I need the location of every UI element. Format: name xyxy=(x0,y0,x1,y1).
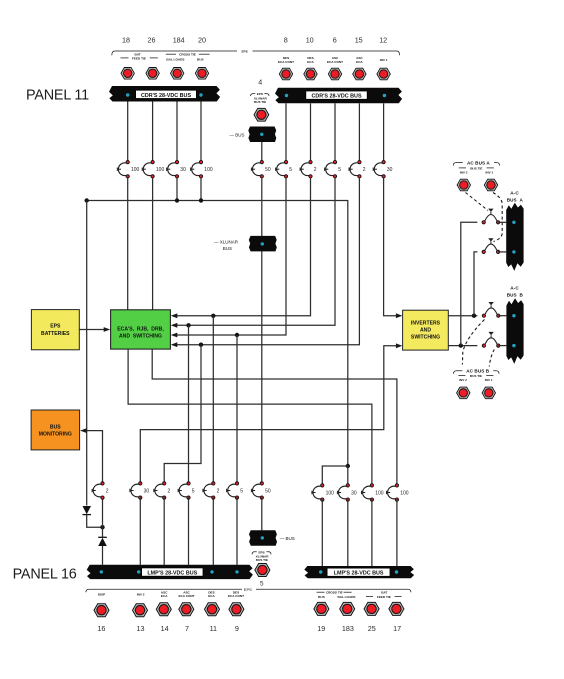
wire AC bus A switch2 feed xyxy=(474,252,477,316)
EPS BATTERIES box xyxy=(31,310,79,350)
breaker hex 20 xyxy=(195,68,208,80)
wire col 383.6 to inverter input 1 xyxy=(384,178,397,316)
breaker hex 13 INV 2 xyxy=(132,604,147,617)
arrowhead into ECA box from batteries xyxy=(104,327,111,332)
wire ECA line2 drop to lower CB 5 xyxy=(188,325,190,483)
svg-text:100: 100 xyxy=(326,490,335,496)
wire ECA line3 drop to lower CB 5 xyxy=(236,335,238,484)
wire batteries to ECA box xyxy=(79,329,104,331)
breaker hex 8 DES ECA CONT xyxy=(279,68,292,80)
svg-text:BAL LOADS: BAL LOADS xyxy=(166,57,184,61)
breaker hex 18 BAT FEED TIE xyxy=(121,68,134,80)
CDR 28-VDC bus (left segment) xyxy=(109,86,220,102)
svg-text:16: 16 xyxy=(97,624,105,633)
junction dot line2 xyxy=(186,323,190,327)
breaker hex AC bus B INV 1 xyxy=(482,387,495,399)
svg-text:2: 2 xyxy=(217,488,220,494)
junction dot output1 xyxy=(472,314,476,318)
diode CR1 (left trunk) xyxy=(83,506,103,527)
svg-text:50: 50 xyxy=(265,167,271,173)
wire to bus monitoring xyxy=(86,431,103,484)
ECA'S RJB DRB AND SWITCHING box xyxy=(111,310,171,349)
BUS MONITORING box xyxy=(31,410,80,450)
svg-text:ECA CONT: ECA CONT xyxy=(228,594,244,598)
CB 30 (col 383.6) xyxy=(373,160,385,178)
svg-text:2: 2 xyxy=(106,488,109,494)
lower CB 100 (col 322.3) xyxy=(312,484,324,502)
wire xlunar col down through xlunar bus xyxy=(261,178,263,484)
breaker hex AC bus A INV 2 xyxy=(457,179,470,191)
svg-text:50: 50 xyxy=(265,488,271,494)
CB 5 (col 335) xyxy=(325,160,337,178)
junction dot output2 xyxy=(459,343,463,347)
junction dot diode node xyxy=(100,525,104,529)
svg-text:4: 4 xyxy=(258,77,262,86)
wire ECA bottom output 1 to lower right CB 100 xyxy=(128,349,372,485)
lower CB 100 (col 371.9) xyxy=(362,484,374,502)
breaker hex 7 ASC ECA CONT xyxy=(179,603,194,616)
svg-text:BATTERIES: BATTERIES xyxy=(41,331,70,337)
svg-text:15: 15 xyxy=(355,36,363,45)
lower CB 100 (col 396.9) xyxy=(387,484,399,502)
svg-text:BAT: BAT xyxy=(381,591,387,595)
breaker hex 11 DES ECA xyxy=(204,603,219,616)
dashed link switch3 to INV2 hex (bus B) xyxy=(462,320,484,365)
panel 11 EPS bracket line xyxy=(112,50,400,56)
breaker hex 16 DISP xyxy=(94,604,109,617)
svg-text:BUS A: BUS A xyxy=(507,198,524,203)
svg-text:— BUS: — BUS xyxy=(280,536,295,541)
dashed link INV1 hex to switch2 xyxy=(493,193,502,242)
breaker hex AC bus B INV 2 xyxy=(457,387,470,399)
svg-text:— BUS: — BUS xyxy=(230,132,245,137)
breaker hex 15 ASC ECA xyxy=(353,68,366,80)
wire inverter input 2 from LMP bus CB 30 xyxy=(140,346,396,484)
wire switch2 to AC bus A bar xyxy=(498,251,506,253)
arrowhead into ECA box line1 xyxy=(171,313,178,318)
svg-text:BUS: BUS xyxy=(223,246,232,251)
CB 2 (col 359.4) xyxy=(349,160,361,178)
lower CB 2 (col 213.3) xyxy=(203,482,215,500)
svg-text:26: 26 xyxy=(148,36,156,45)
svg-text:INV 1: INV 1 xyxy=(486,171,494,175)
svg-text:5: 5 xyxy=(240,488,243,494)
svg-text:CDR'S 28-VDC BUS: CDR'S 28-VDC BUS xyxy=(311,94,362,100)
wire ECA bottom output 2 to lower right CB 100 xyxy=(152,349,397,485)
wire trunk drop junction to lower CB 30 xyxy=(346,464,350,468)
wire inverter output 1 to AC bus B switch xyxy=(448,315,477,317)
label CROSS TIE / BAL LOADS / BUS (panel 11) xyxy=(166,53,210,62)
svg-text:11: 11 xyxy=(210,624,217,633)
lower CB 5 (col 237) xyxy=(227,482,239,500)
breaker hex 10 DES ECA xyxy=(304,68,317,80)
lower CB 50 (col 261.8) xyxy=(251,482,263,500)
arrowhead into ECA box line4 xyxy=(171,342,178,347)
wire switch4 to AC bus B bar xyxy=(498,345,506,347)
svg-text:184: 184 xyxy=(173,36,185,45)
svg-text:5: 5 xyxy=(338,167,341,173)
arrowhead into ECA box line2 xyxy=(171,323,178,328)
svg-text:— XLUNAR: — XLUNAR xyxy=(214,240,239,245)
A-C BUS A bar xyxy=(506,203,523,271)
label EPS XLUNAR BUS TIE (bottom) xyxy=(252,550,271,562)
svg-text:ECA'S, RJB, DRB,: ECA'S, RJB, DRB, xyxy=(117,327,164,333)
breaker hex 4 EPS XLUNAR BUS TIE xyxy=(254,108,269,121)
svg-text:CROSS TIE: CROSS TIE xyxy=(326,591,343,595)
breaker hex 6 ASC ECA CONT xyxy=(328,68,341,80)
lower CB 2 (col 102.5) xyxy=(92,482,104,500)
svg-text:6: 6 xyxy=(333,36,337,45)
breaker hex 5 EPS XLUNAR BUS TIE (bottom) xyxy=(255,564,270,577)
CB 100 (col 201) xyxy=(191,160,203,178)
wire AC bus A switch1 feed xyxy=(461,222,478,345)
wire col 152.6 CB to ECA box top xyxy=(152,178,154,310)
svg-text:ECA CONT: ECA CONT xyxy=(327,60,343,64)
label BAT FEED TIE (panel 11) xyxy=(121,53,158,61)
svg-text:FEED TIE: FEED TIE xyxy=(377,595,391,599)
labels under LMP right bus xyxy=(317,591,402,599)
wire col 201 CB to trunk xyxy=(200,178,202,201)
svg-text:BUS TIE: BUS TIE xyxy=(470,374,482,378)
svg-text:30: 30 xyxy=(144,488,150,494)
wire col 177 CB to trunk xyxy=(176,178,178,201)
svg-text:BUS B: BUS B xyxy=(507,293,524,298)
INVERTERS AND SWITCHING box xyxy=(403,310,449,350)
svg-text:BUS TIE: BUS TIE xyxy=(254,100,266,104)
svg-text:AND: AND xyxy=(420,327,431,333)
svg-text:A-C: A-C xyxy=(510,286,519,291)
svg-text:SWITCHING: SWITCHING xyxy=(411,334,440,340)
CB 30 (col 177) xyxy=(167,160,179,178)
A-C BUS B bar xyxy=(506,298,523,364)
svg-text:ECA: ECA xyxy=(356,60,363,64)
dashed link switch4 to INV1 hex (bus B) xyxy=(489,350,494,367)
breaker hex 9 DES ECA CONT xyxy=(229,603,244,616)
svg-text:EPS: EPS xyxy=(241,50,247,54)
svg-text:13: 13 xyxy=(137,624,145,633)
svg-text:30: 30 xyxy=(387,167,393,173)
svg-text:EPS: EPS xyxy=(244,587,252,592)
svg-text:BUS: BUS xyxy=(197,57,204,61)
svg-text:2: 2 xyxy=(363,167,366,173)
svg-text:18: 18 xyxy=(122,36,130,45)
wire col 359.4 to ECA arrow 4 xyxy=(177,178,360,345)
CB 5 (col 286) xyxy=(276,160,288,178)
svg-text:17: 17 xyxy=(393,624,401,633)
svg-text:PANEL 11: PANEL 11 xyxy=(26,88,89,104)
XLUNAR bus (middle) xyxy=(214,236,277,252)
wire col 286 to ECA arrow 3 xyxy=(177,178,287,335)
arrowhead into bus monitoring xyxy=(80,428,87,433)
svg-text:BUS: BUS xyxy=(50,424,61,430)
junction dot line3 xyxy=(235,333,239,337)
svg-text:19: 19 xyxy=(317,624,325,633)
svg-text:183: 183 xyxy=(342,624,354,633)
wire branch to lower CB 100 (322) xyxy=(322,466,348,485)
label EPS XLUNAR BUS TIE (top) xyxy=(251,92,269,104)
svg-text:30: 30 xyxy=(351,490,357,496)
svg-text:ECA CONT: ECA CONT xyxy=(278,60,294,64)
switch3 AC bus B xyxy=(482,302,500,317)
svg-text:A-C: A-C xyxy=(510,191,519,196)
svg-text:CDR'S 28-VDC BUS: CDR'S 28-VDC BUS xyxy=(141,93,192,99)
wire col 335 to ECA arrow 2 xyxy=(177,178,336,326)
junction dot line1 xyxy=(211,314,215,318)
svg-text:25: 25 xyxy=(368,624,376,633)
svg-text:100: 100 xyxy=(131,167,140,173)
labels above right CDR bus xyxy=(278,56,388,64)
svg-text:100: 100 xyxy=(400,490,409,496)
wire col 127.7 CB to ECA box top xyxy=(127,178,129,310)
lower CB 30 (col 347.8) xyxy=(337,484,349,502)
breaker hex 17 BAT FEED TIE xyxy=(389,602,404,615)
wire CB 50 to xlunar mini bus (bottom) xyxy=(261,497,263,530)
switch1 AC bus A xyxy=(482,209,500,224)
breaker hex 26 xyxy=(146,68,159,80)
svg-text:20: 20 xyxy=(198,36,206,45)
svg-text:BUS TIE: BUS TIE xyxy=(256,558,268,562)
lower CB 30 (col 140.3) xyxy=(130,482,142,500)
LMP 28-VDC bus (left segment) xyxy=(87,565,253,579)
svg-text:7: 7 xyxy=(185,624,189,633)
svg-text:BAL LOADS: BAL LOADS xyxy=(338,595,356,599)
svg-text:100: 100 xyxy=(156,167,165,173)
CB 50 (col 261.8) xyxy=(251,160,263,178)
svg-text:100: 100 xyxy=(204,167,213,173)
wire xlunar mini bus to CB 50 xyxy=(261,142,263,161)
svg-text:AC BUS A: AC BUS A xyxy=(467,161,490,166)
svg-text:10: 10 xyxy=(306,36,314,45)
svg-text:INVERTERS: INVERTERS xyxy=(411,320,441,326)
XLUNAR mini bus (bottom) xyxy=(249,530,295,546)
svg-text:EPS: EPS xyxy=(50,324,61,330)
junction dot line4 xyxy=(199,343,203,347)
CDR 28-VDC bus (right segment) xyxy=(275,88,402,104)
CB 2 (col 310.5) xyxy=(300,160,312,178)
breaker hex 14 ASC ECA xyxy=(156,603,171,616)
svg-text:AND SWITCHING: AND SWITCHING xyxy=(119,333,162,339)
breaker hex AC bus A INV 1 xyxy=(484,179,497,191)
arrowhead inverter input 1 xyxy=(396,313,403,318)
svg-text:100: 100 xyxy=(375,490,384,496)
lower CB 2 (col 164.2) xyxy=(154,482,166,500)
svg-text:LMP'S 28-VDC BUS: LMP'S 28-VDC BUS xyxy=(334,571,384,577)
label AC BUS A bracket xyxy=(453,161,499,175)
svg-text:12: 12 xyxy=(379,36,387,45)
wires lower CBs to LMP left bus xyxy=(140,497,237,564)
svg-text:ECA: ECA xyxy=(208,594,215,598)
svg-text:30: 30 xyxy=(180,167,186,173)
svg-text:INV 2: INV 2 xyxy=(137,592,145,596)
arrowhead into ECA box line3 xyxy=(171,333,178,338)
svg-text:8: 8 xyxy=(284,36,288,45)
svg-text:5: 5 xyxy=(289,167,292,173)
wire ECA line4 drop with elbow to lower CB 2 xyxy=(164,345,201,484)
svg-text:ECA: ECA xyxy=(307,60,314,64)
svg-text:5: 5 xyxy=(192,488,195,494)
panel 16 EPS bracket line xyxy=(86,587,411,593)
junction dot trunk left xyxy=(85,198,89,202)
svg-text:BUS TIE: BUS TIE xyxy=(470,166,482,170)
trunk wire y=200.5 xyxy=(87,201,348,467)
CB 100 (col 152.6) xyxy=(142,160,154,178)
svg-text:INV 2: INV 2 xyxy=(459,378,467,382)
wire inverter output 2 to AC bus B switch xyxy=(448,345,477,347)
breaker hex 25 BAT FEED TIE xyxy=(364,602,379,615)
svg-text:ECA CONT: ECA CONT xyxy=(178,594,194,598)
svg-text:FEED TIE: FEED TIE xyxy=(132,56,146,60)
label AC BUS B bracket xyxy=(454,369,500,382)
lower CB 5 (col 188.5) xyxy=(178,482,190,500)
svg-text:5: 5 xyxy=(260,580,264,587)
switch2 AC bus A xyxy=(482,238,500,253)
svg-text:14: 14 xyxy=(161,624,169,633)
dashed link INV2 hex to switch1 xyxy=(466,193,489,211)
svg-text:DISP: DISP xyxy=(98,592,105,596)
junction dot col 177 xyxy=(175,198,179,202)
wire switch1 to AC bus A bar xyxy=(498,221,506,223)
wire CDR right bus to CBs xyxy=(286,103,384,161)
diode CR2 (to LMP bus) xyxy=(98,497,107,564)
breaker hex 12 INV 1 xyxy=(377,68,390,80)
svg-text:9: 9 xyxy=(235,624,239,633)
wire col 310.5 to ECA arrow 1 xyxy=(177,178,311,316)
arrowhead inverter input 2 xyxy=(396,343,403,348)
svg-text:LMP'S 28-VDC BUS: LMP'S 28-VDC BUS xyxy=(147,571,197,577)
breaker hex 19 BUS xyxy=(314,602,329,615)
wire left trunk drop to diode CR1 xyxy=(86,201,88,506)
svg-text:2: 2 xyxy=(314,167,317,173)
svg-text:MONITORING: MONITORING xyxy=(39,432,72,438)
svg-text:CROSS TIE: CROSS TIE xyxy=(179,53,196,57)
breaker hex 184 xyxy=(171,68,184,80)
svg-text:INV 2: INV 2 xyxy=(460,171,468,175)
svg-text:PANEL 16: PANEL 16 xyxy=(13,566,77,582)
labels under LMP left bus xyxy=(98,590,244,598)
breaker hex 183 BAL LOADS xyxy=(340,602,355,615)
LMP 28-VDC bus (right segment) xyxy=(304,566,414,578)
svg-text:INV 1: INV 1 xyxy=(485,378,493,382)
wire ECA line1 drop to lower CB 2 xyxy=(212,316,214,484)
wire switch3 to AC bus B bar xyxy=(498,315,506,317)
CB 100 (col 127.7) xyxy=(117,160,129,178)
wire CDR left bus to CBs xyxy=(128,102,201,161)
XLUNAR mini bus (top) xyxy=(230,127,277,143)
junction dot col 201 xyxy=(199,198,203,202)
switch4 AC bus B xyxy=(482,332,500,347)
svg-text:BUS: BUS xyxy=(318,595,325,599)
svg-text:ECA: ECA xyxy=(161,594,168,598)
svg-text:2: 2 xyxy=(168,488,171,494)
svg-text:INV 1: INV 1 xyxy=(380,58,388,62)
wires lower CBs to LMP right bus xyxy=(322,499,397,566)
